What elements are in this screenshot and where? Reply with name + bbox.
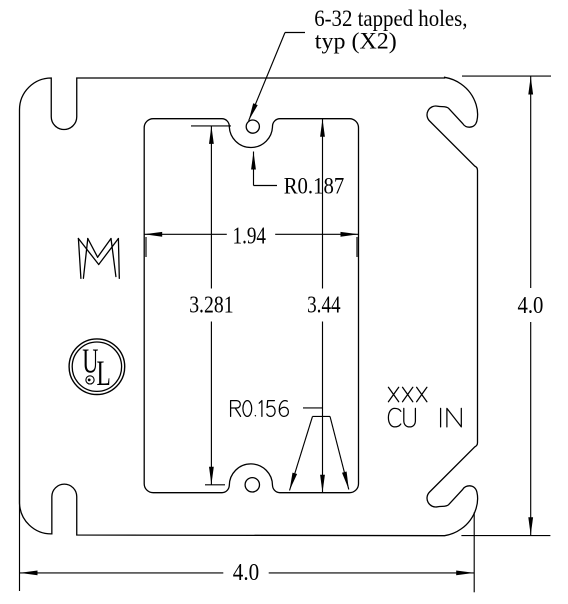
svg-text:3.281: 3.281 xyxy=(189,292,233,318)
svg-text:4.0: 4.0 xyxy=(518,293,544,319)
svg-text:typ (X2): typ (X2) xyxy=(315,29,397,54)
svg-text:1.94: 1.94 xyxy=(233,224,267,250)
svg-text:R0.187: R0.187 xyxy=(284,173,345,198)
svg-text:L: L xyxy=(96,353,110,393)
svg-text:4.0: 4.0 xyxy=(233,560,259,586)
svg-text:6-32 tapped holes,: 6-32 tapped holes, xyxy=(314,6,467,31)
svg-text:3.44: 3.44 xyxy=(307,292,341,318)
